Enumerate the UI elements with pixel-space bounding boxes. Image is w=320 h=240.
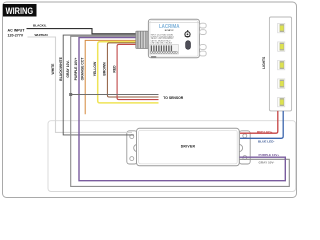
wire brown — [107, 43, 158, 97]
svg-text:LINE LOAD DIM+ DIM- AUX: LINE LOAD DIM+ DIM- AUX — [151, 41, 173, 44]
svg-text:BLACK/L: BLACK/L — [33, 23, 47, 27]
svg-text:PURPLE 10V+: PURPLE 10V+ — [259, 153, 280, 157]
sensor photocell pill — [186, 41, 191, 50]
page background — [0, 0, 300, 203]
LED D1 — [278, 23, 285, 32]
sensor spec text — [151, 34, 174, 45]
wire purple dimming loop — [79, 38, 285, 181]
svg-text:120-277V: 120-277V — [8, 33, 24, 37]
svg-text:KCHF IC: KCHF IC — [165, 30, 174, 32]
driver left tab notch — [134, 144, 141, 151]
outer frame — [3, 2, 297, 198]
driver body — [137, 128, 240, 166]
sensor terminal block — [150, 45, 179, 54]
LED D2 — [278, 42, 285, 51]
wire gray dimming loop — [71, 36, 290, 186]
svg-text:DRIVER: DRIVER — [181, 144, 196, 148]
wire black/white to driver — [63, 35, 137, 135]
LED D5 — [278, 97, 285, 106]
svg-text:AC INPUT: AC INPUT — [8, 28, 26, 32]
driver inner border — [139, 130, 238, 164]
sensor lid seam — [149, 21, 200, 23]
driver left tab holes — [130, 135, 134, 139]
driver left tab — [127, 131, 137, 164]
sensor mounting clip bottom — [200, 45, 207, 56]
svg-text:LIGHTS: LIGHTS — [262, 56, 266, 69]
LED strip box — [269, 17, 291, 111]
LED D3 — [278, 60, 285, 69]
LED D4 — [278, 79, 285, 88]
WIRING title box — [3, 4, 37, 17]
wire black AC to sensor — [27, 29, 137, 34]
sensor strain relief connector — [136, 31, 149, 48]
connector corrugation ridges — [137, 31, 147, 48]
wire red to sensor — [117, 44, 158, 99]
svg-text:RED: RED — [112, 65, 116, 73]
svg-text:TO SENSOR: TO SENSOR — [163, 96, 183, 100]
wire gray branch to sensor — [71, 94, 159, 96]
svg-text:GRAY 10V-: GRAY 10V- — [259, 161, 275, 165]
wire white/N — [28, 37, 133, 132]
svg-text:GRAY 10V-: GRAY 10V- — [66, 60, 70, 77]
svg-text:ORANGE CCT: ORANGE CCT — [80, 57, 84, 81]
driver right tab — [239, 131, 250, 164]
svg-text:WHITE: WHITE — [51, 63, 55, 75]
svg-text:YELLOW: YELLOW — [93, 61, 97, 76]
sensor U1 body — [148, 19, 199, 58]
svg-text:BLACK/WHITE: BLACK/WHITE — [59, 56, 63, 80]
svg-text:LACRIMA: LACRIMA — [159, 24, 180, 30]
sensor bottom dash — [151, 56, 156, 58]
sensor certification circle — [187, 30, 189, 32]
enclosure light rect — [48, 121, 296, 192]
driver right tab holes — [243, 134, 247, 138]
wire blue LED- — [240, 111, 283, 138]
wire yellow — [98, 42, 159, 103]
svg-text:BROWN: BROWN — [103, 62, 107, 76]
svg-text:BLUE LED-: BLUE LED- — [258, 140, 275, 144]
svg-text:PURPLE 10V+: PURPLE 10V+ — [74, 58, 78, 81]
svg-text:RED LED+: RED LED+ — [257, 130, 273, 134]
driver right tab notch — [235, 144, 242, 151]
sensor inner border — [150, 21, 198, 57]
junction gray branch — [69, 93, 72, 96]
svg-text:WIRING: WIRING — [6, 6, 33, 16]
wire orange — [85, 40, 137, 114]
wire red LED+ — [240, 111, 278, 133]
sensor mounting clip top — [200, 23, 207, 34]
